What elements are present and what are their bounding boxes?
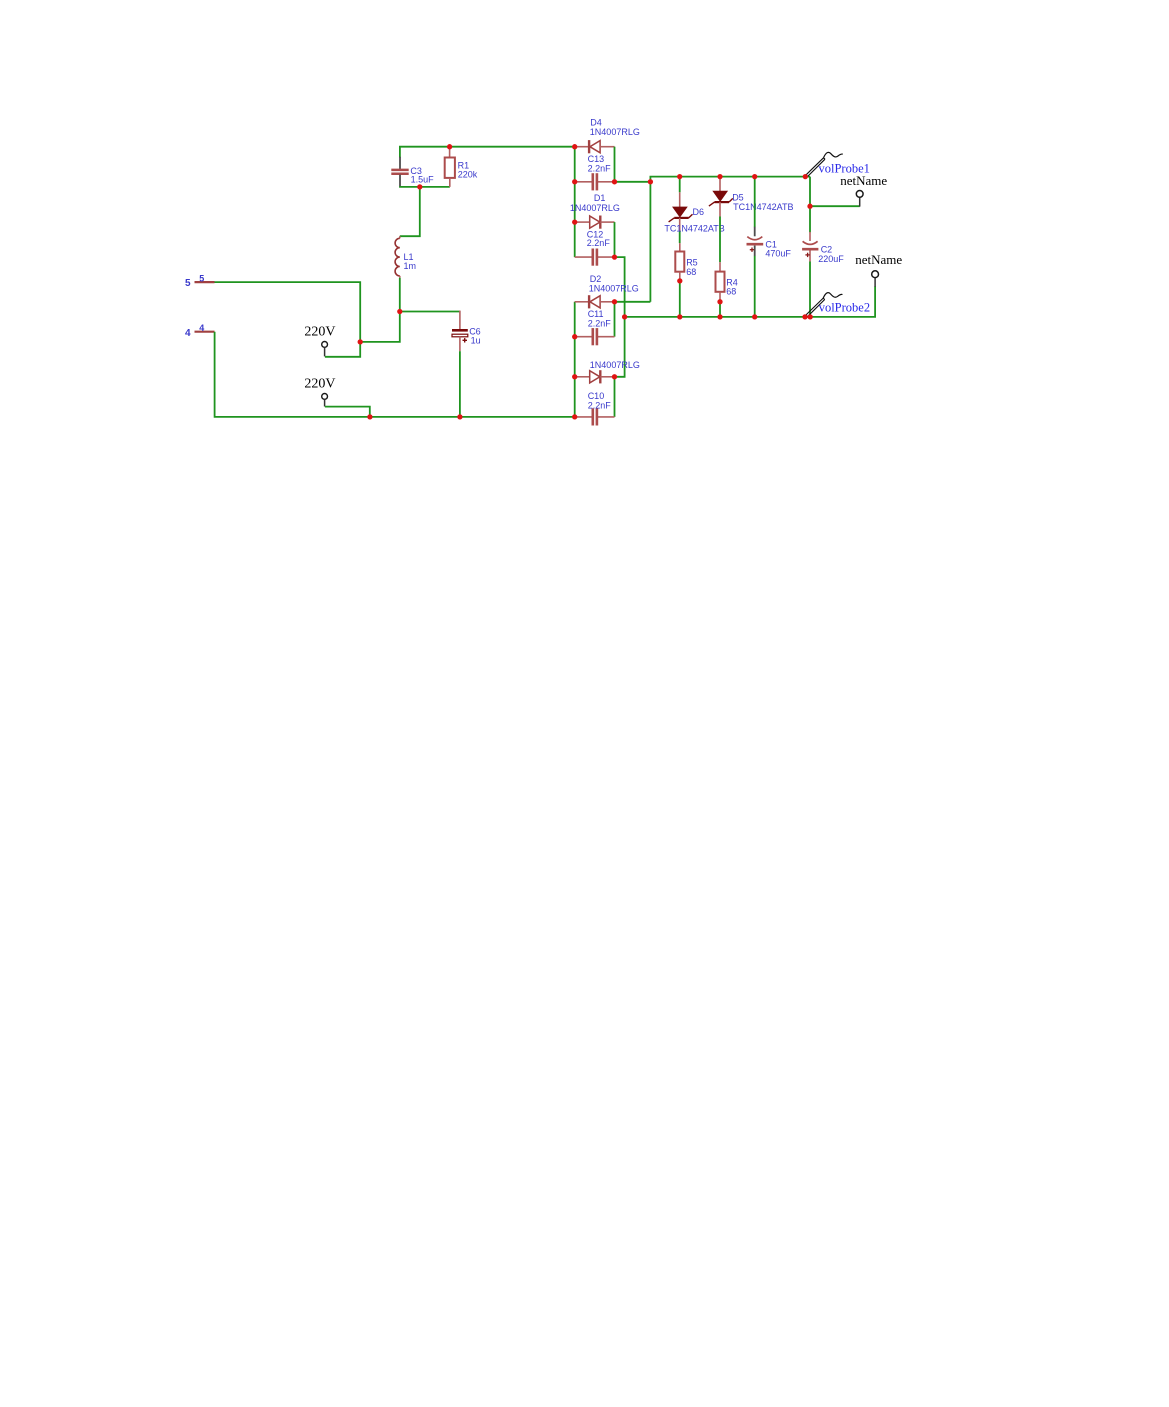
diode D3 [575,360,640,383]
resistor R4 [716,262,738,302]
junction [807,204,812,209]
svg-text:5: 5 [199,273,204,283]
wire [614,302,616,337]
svg-text:TC1N4742ATB: TC1N4742ATB [733,202,793,212]
svg-text:1N4007RLG: 1N4007RLG [589,283,639,293]
junction [752,174,757,179]
wire [615,181,651,183]
svg-text:netName: netName [855,252,902,267]
svg-text:220k: 220k [458,170,478,180]
capacitor C11 [575,309,615,345]
wire [679,177,681,193]
junction [612,179,617,184]
net port netName top [810,173,887,207]
zener diode D5 [709,179,794,216]
wire [400,185,450,188]
wire [719,217,721,263]
wire [679,232,681,244]
junction [358,339,363,344]
capacitor C2 [802,232,844,264]
capacitor C13 [575,154,615,190]
wire [614,222,616,257]
capacitor C10 [575,391,615,426]
svg-text:1u: 1u [471,336,481,346]
diode D1 [570,193,620,229]
wire [614,377,616,417]
wire [809,262,811,317]
junction [572,219,577,224]
junction [677,174,682,179]
junction [457,414,462,419]
wire [719,177,721,180]
svg-text:1.5uF: 1.5uF [411,175,435,185]
wire [215,332,575,417]
svg-text:470uF: 470uF [765,249,791,259]
resistor R5 [675,243,697,281]
zener diode D6 [664,192,724,233]
diode D4 [575,118,640,154]
capacitor C1 [747,227,792,259]
svg-text:220uF: 220uF [818,254,844,264]
wire [574,147,576,257]
junction [572,374,577,379]
inductor L1 [395,236,416,278]
junction [367,414,372,419]
junction [677,314,682,319]
junction [717,314,722,319]
wire [649,182,651,302]
junction [572,414,577,419]
wire [399,278,401,312]
junction [752,314,757,319]
wire [400,187,420,236]
junction [397,309,402,314]
svg-text:220V: 220V [304,324,335,339]
svg-text:5: 5 [185,278,191,289]
svg-text:1m: 1m [404,261,417,271]
junction [717,174,722,179]
svg-text:TC1N4742ATB: TC1N4742ATB [664,224,724,234]
wire [400,147,575,158]
probe volProbe2 [805,293,870,317]
svg-text:220V: 220V [304,376,335,391]
junction [612,299,617,304]
wire [615,301,651,303]
junction [612,254,617,259]
wire [615,257,625,377]
junction [572,144,577,149]
wire [809,177,811,233]
svg-text:2.2nF: 2.2nF [587,238,611,248]
wire [679,281,681,317]
junction [803,174,808,179]
wire [650,177,810,182]
connector pin 4 [185,323,215,339]
junction [612,374,617,379]
resistor R1 [445,147,478,187]
svg-text:2.2nF: 2.2nF [588,318,612,328]
port 220V bottom [304,376,335,406]
wire [325,407,370,417]
svg-text:C10: C10 [588,391,605,401]
capacitor C12 [575,230,615,266]
wire [360,312,400,342]
svg-text:D1: D1 [594,193,606,203]
svg-text:2.2nF: 2.2nF [588,401,612,411]
svg-text:netName: netName [840,173,887,188]
svg-text:68: 68 [686,267,696,277]
wire [614,147,616,182]
probe volProbe1 [806,152,870,176]
wire [400,311,460,313]
junction [447,144,452,149]
wire [459,351,461,417]
junction [802,314,807,319]
junction [572,179,577,184]
junction [572,334,577,339]
capacitor C6 [452,311,481,352]
wire [574,302,576,417]
svg-text:C2: C2 [821,244,833,254]
svg-text:68: 68 [726,287,736,297]
junction [417,184,422,189]
wire [754,177,756,228]
svg-text:1N4007RLG: 1N4007RLG [590,127,640,137]
wire [215,282,361,357]
connector pin 5 [185,273,215,289]
svg-text:4: 4 [199,323,204,333]
junction [717,299,722,304]
port 220V top [304,324,335,356]
svg-text:1N4007RLG: 1N4007RLG [570,203,620,213]
net port netName bottom [855,252,902,287]
svg-text:4: 4 [185,328,191,339]
wire [625,286,876,317]
svg-text:1N4007RLG: 1N4007RLG [590,360,640,370]
svg-text:2.2nF: 2.2nF [588,164,612,174]
svg-text:volProbe2: volProbe2 [819,301,870,315]
capacitor C3 [391,157,434,187]
svg-text:D6: D6 [693,207,705,217]
junction [677,278,682,283]
junction [622,314,627,319]
diode D2 [575,274,639,308]
junction [808,314,813,319]
wire [719,302,721,317]
wire [754,256,756,317]
junction [648,179,653,184]
